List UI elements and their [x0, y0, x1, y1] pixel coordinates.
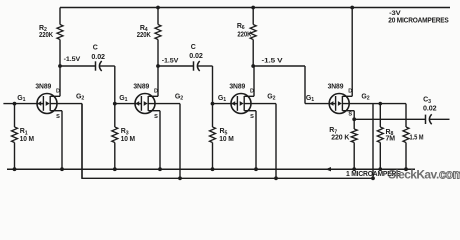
- label D pin Q1: [56, 89, 60, 95]
- label C3: [423, 97, 431, 105]
- wire G2 lead Q3: [244, 104, 276, 179]
- label R3: [121, 128, 129, 136]
- svg-text:0.02: 0.02: [91, 54, 105, 61]
- node G2-bus junction Q2: [178, 176, 182, 180]
- node R3-ground junction: [113, 167, 117, 171]
- svg-text:-3V: -3V: [389, 10, 401, 17]
- svg-text:10 M: 10 M: [121, 136, 136, 143]
- label -1.5V stage 3: [262, 57, 284, 64]
- svg-text:220 K: 220 K: [331, 135, 349, 142]
- label S pin Q3: [250, 114, 254, 120]
- svg-text:20 MICROAMPERES: 20 MICROAMPERES: [388, 18, 449, 25]
- label G2 pin Q1: [76, 93, 84, 101]
- transistor Q1 3N89: [37, 94, 62, 114]
- wire Q4 G2 line: [342, 103, 406, 105]
- svg-text:220K: 220K: [237, 31, 251, 38]
- node gate node stage 3: [211, 102, 215, 106]
- watermark SleckKav.com: [388, 168, 460, 182]
- label C1: [93, 45, 98, 52]
- node gate node stage 2: [113, 102, 117, 106]
- label G1 pin Q3: [218, 95, 226, 103]
- label G1 pin Q4: [306, 95, 314, 103]
- label R7 value 220 K: [331, 135, 349, 142]
- wire G2 bias bus rail: [82, 104, 373, 179]
- node R8 top junction: [379, 102, 383, 106]
- node R1-ground junction: [13, 167, 17, 171]
- label R8 value 7M: [386, 135, 396, 142]
- wire drain lead Q1: [59, 66, 61, 96]
- label G2 pin Q3: [267, 93, 275, 101]
- wire direct coupling stage 3 to 4: [253, 66, 335, 104]
- label D pin Q3: [250, 89, 254, 95]
- capacitor C2: [158, 61, 213, 71]
- node R8-ground junction: [378, 167, 382, 171]
- label C2: [191, 44, 196, 51]
- node G2-bus junction Q3: [274, 176, 278, 180]
- wire bottom ground rail: [7, 168, 415, 170]
- resistor R8: [377, 104, 383, 170]
- node Q4 drain-rail junction: [350, 6, 354, 10]
- label G2 pin Q2: [175, 93, 183, 101]
- svg-text:0.02: 0.02: [423, 106, 437, 113]
- resistor R3: [112, 104, 118, 170]
- wire source lead Q2: [159, 111, 161, 170]
- svg-text:com: com: [439, 168, 460, 182]
- label C3 value 0.02: [423, 106, 437, 113]
- transistor Q4 3N89: [329, 94, 354, 114]
- label 1 MICROAMPERE: [346, 171, 401, 178]
- svg-text:3N89: 3N89: [229, 84, 245, 91]
- label R3 value 10 M: [121, 136, 136, 143]
- label 3N89 Q2: [133, 84, 149, 91]
- node -1.5V drain node stage 1: [58, 64, 62, 68]
- label C2 value 0.02: [189, 53, 203, 60]
- label R4: [140, 25, 148, 33]
- svg-text:S: S: [250, 114, 254, 120]
- wire G2 lead Q1: [50, 104, 82, 179]
- node -1.5V drain node stage 2: [156, 64, 160, 68]
- label R7: [329, 127, 337, 135]
- svg-text:220K: 220K: [39, 32, 53, 39]
- svg-text:3N89: 3N89: [133, 84, 149, 91]
- wire drain lead Q3: [253, 66, 255, 96]
- resistor R5: [210, 104, 216, 170]
- wire source lead Q3: [255, 111, 257, 170]
- svg-text:C: C: [93, 45, 98, 52]
- resistor R4: [155, 8, 161, 67]
- svg-text:S: S: [348, 112, 352, 118]
- label R6: [237, 23, 245, 31]
- node source-ground junction Q2: [158, 167, 162, 171]
- current arrow on ground rail: [326, 167, 332, 171]
- svg-text:C: C: [191, 44, 196, 51]
- label R6 value 220K: [237, 31, 251, 38]
- label G2 pin Q4: [361, 93, 369, 101]
- capacitor C3: [426, 114, 450, 124]
- svg-text:220K: 220K: [137, 32, 151, 39]
- node R7-ground junction: [352, 167, 356, 171]
- svg-text:-1.5V: -1.5V: [64, 56, 81, 63]
- svg-text:S: S: [154, 114, 158, 120]
- label R1 value 10 M: [20, 136, 35, 143]
- svg-text:1.5 M: 1.5 M: [410, 134, 424, 141]
- label S pin Q4: [348, 112, 352, 118]
- svg-text:3N89: 3N89: [35, 84, 51, 91]
- resistor R1: [12, 104, 18, 170]
- wire coupling to stage 3 gate: [213, 66, 238, 104]
- label R4 value 220K: [137, 32, 151, 39]
- svg-text:S: S: [56, 114, 60, 120]
- wire drain lead Q4 to rail: [351, 8, 353, 97]
- node R5-ground junction: [211, 167, 215, 171]
- svg-text:0.02: 0.02: [189, 53, 203, 60]
- resistor R2: [57, 8, 63, 67]
- svg-text:SleckKav: SleckKav: [388, 168, 437, 182]
- transistor Q2 3N89: [135, 94, 160, 114]
- transistor Q3 3N89: [231, 94, 256, 114]
- svg-text:-1.5 V: -1.5 V: [262, 57, 284, 64]
- label 3N89 Q3: [229, 84, 245, 91]
- node output junction: [352, 117, 356, 121]
- wire coupling to stage 2 gate: [115, 66, 141, 104]
- node 1.5M-ground junction: [404, 167, 408, 171]
- label 20 MICROAMPERES: [388, 18, 449, 25]
- wire Q4 G2 to bus: [372, 104, 374, 179]
- label 3N89 Q4: [328, 84, 344, 91]
- capacitor C1: [60, 61, 115, 71]
- wire G1 input lead stage 1: [3, 103, 43, 105]
- resistor R6: [250, 8, 256, 67]
- label 3N89 Q1: [35, 84, 51, 91]
- wire top -3V supply rail: [60, 7, 450, 9]
- node R6-rail junction: [251, 6, 255, 10]
- label -1.5V stage 2: [162, 57, 179, 64]
- wire output line: [354, 118, 425, 120]
- svg-text:3N89: 3N89: [328, 84, 344, 91]
- node source-ground junction Q3: [254, 167, 258, 171]
- label 1.5M value: [410, 134, 424, 141]
- label D pin Q4: [348, 89, 352, 95]
- label R5 value 10 M: [219, 136, 234, 143]
- wire G2 lead Q2: [148, 104, 180, 179]
- wire source lead Q1: [61, 111, 63, 170]
- label R8: [386, 129, 394, 137]
- wire drain lead Q2: [157, 66, 159, 96]
- label S pin Q2: [154, 114, 158, 120]
- svg-text:-1.5V: -1.5V: [162, 57, 179, 64]
- label G1 pin Q2: [119, 95, 127, 103]
- node R4-rail junction: [156, 6, 160, 10]
- svg-text:10 M: 10 M: [219, 136, 234, 143]
- label R2: [39, 25, 47, 33]
- label R1: [20, 128, 28, 136]
- label R5: [220, 128, 228, 136]
- label -1.5V stage 1: [64, 56, 81, 63]
- node G1-R1 junction: [13, 102, 17, 106]
- wire Q4 source lead: [353, 111, 355, 120]
- node -1.5V drain node stage 3: [251, 64, 255, 68]
- label -3V supply: [389, 10, 401, 17]
- node source-ground junction Q1: [60, 167, 64, 171]
- label C1 value 0.02: [91, 54, 105, 61]
- label G1 pin Q1: [17, 95, 25, 103]
- svg-text:10 M: 10 M: [20, 136, 35, 143]
- svg-text:7M: 7M: [386, 135, 396, 142]
- label R2 value 220K: [39, 32, 53, 39]
- node Q4 G2 bus junction bottom: [371, 176, 375, 180]
- label D pin Q2: [154, 89, 158, 95]
- label S pin Q1: [56, 114, 60, 120]
- resistor R7: [351, 119, 357, 169]
- resistor 1.5M: [403, 104, 409, 170]
